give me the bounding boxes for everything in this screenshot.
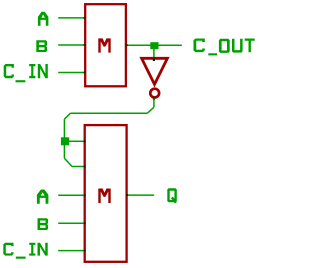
wire net A to M2 pin 3 — [58, 194, 85, 196]
module M2 (majority gate, bottom) — [85, 125, 127, 262]
wire to M2 pin 2 — [72, 166, 85, 168]
wire vertical down to junction — [63, 119, 65, 141]
pin contact dot M2 pin 4 — [84, 222, 86, 224]
pin contact dot M1 pin 1 — [84, 17, 86, 19]
net label B (bottom) — [38, 218, 49, 230]
wire M2 output to Q — [127, 194, 154, 196]
wire below junction — [63, 145, 65, 158]
pin contact dot M2 pin 2 — [84, 166, 86, 168]
pin contact dot M1 pin 2 — [84, 44, 86, 46]
contact dot inverter output — [153, 97, 155, 99]
pin contact dot M2 pin 5 — [84, 250, 86, 252]
wire net A to M1 pin 1 — [58, 17, 85, 19]
net label A (bottom) — [37, 190, 48, 204]
junction on C_OUT net — [150, 42, 158, 49]
net label A (top) — [38, 12, 49, 26]
wire net C_IN to M2 pin 5 — [58, 250, 85, 252]
pin contact dot M2 pin 1 — [84, 140, 86, 142]
pin contact dot M2 pin 3 — [84, 194, 86, 196]
wire junction to inverter input — [153, 49, 155, 59]
inverter U1 — [142, 58, 168, 97]
wire diagonal bend down — [64, 158, 72, 166]
net label C_IN (top) — [4, 64, 48, 82]
wire net B to M1 pin 2 — [58, 44, 85, 46]
wire M1 output to C_OUT — [127, 44, 182, 46]
net label Q — [167, 188, 177, 203]
pin contact dot M1 output — [126, 44, 128, 46]
module M1 (majority gate, top) — [85, 4, 126, 86]
net label C_IN (bottom) — [3, 243, 47, 259]
wire junction to M2 pin 1 — [69, 140, 85, 142]
contact dot inverter input — [153, 58, 155, 61]
net label B (top) — [36, 40, 47, 52]
junction on inverted net — [61, 137, 69, 145]
wire inverter output down — [153, 98, 155, 107]
pin contact dot M2 output — [126, 194, 128, 196]
wire horizontal leftward — [70, 112, 147, 114]
wire net C_IN to M1 pin 3 — [58, 72, 85, 74]
net label C_OUT — [194, 39, 255, 56]
wire diagonal bend — [147, 107, 154, 113]
wire net B to M2 pin 4 — [58, 222, 85, 224]
wire diagonal bend left — [64, 113, 70, 119]
pin contact dot M1 pin 3 — [84, 72, 86, 74]
